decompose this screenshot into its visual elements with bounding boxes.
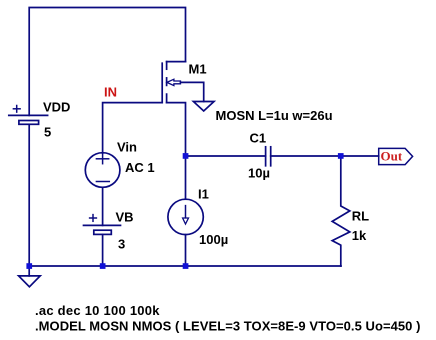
svg-text:.ac dec 10 100 100k: .ac dec 10 100 100k [35, 303, 160, 318]
svg-text:RL: RL [352, 209, 369, 224]
svg-text:5: 5 [44, 125, 51, 140]
svg-text:.MODEL MOSN NMOS ( LEVEL=3 TOX: .MODEL MOSN NMOS ( LEVEL=3 TOX=8E-9 VTO=… [35, 319, 421, 334]
svg-text:IN: IN [104, 85, 117, 100]
svg-text:VDD: VDD [43, 100, 70, 115]
svg-text:M1: M1 [189, 62, 207, 77]
svg-text:MOSN L=1u w=26u: MOSN L=1u w=26u [216, 108, 333, 123]
svg-text:Out: Out [381, 148, 403, 163]
svg-text:10µ: 10µ [248, 165, 270, 180]
svg-text:VB: VB [116, 210, 134, 225]
svg-text:3: 3 [118, 237, 125, 252]
svg-text:I1: I1 [198, 186, 209, 201]
svg-text:AC 1: AC 1 [125, 160, 155, 175]
svg-text:Vin: Vin [117, 140, 137, 155]
svg-text:C1: C1 [250, 130, 267, 145]
svg-text:1k: 1k [352, 228, 367, 243]
svg-text:100µ: 100µ [199, 232, 228, 247]
